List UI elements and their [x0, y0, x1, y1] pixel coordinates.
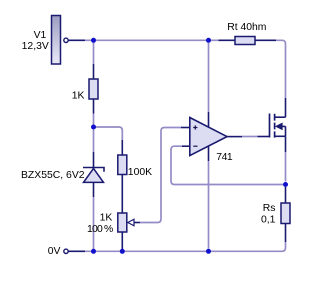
junction bottom op-amp V- [206, 249, 211, 254]
wire 1K to node A [93, 114, 95, 126]
junction node B source/Rs/feedback [283, 182, 288, 187]
wire op-amp V+ drop [208, 43, 210, 112]
junction top-left [91, 38, 96, 43]
svg-text:Rs: Rs [263, 203, 276, 214]
MOSFET Q1 [258, 98, 286, 152]
svg-text:1K: 1K [100, 212, 113, 223]
resistor Rs 0,1 [281, 187, 290, 242]
label 1K 100% [87, 212, 113, 235]
terminal 0V [64, 249, 85, 253]
label V1 12,3V [22, 30, 49, 52]
junction node A [91, 125, 96, 130]
wire top-right corner to drain [276, 40, 286, 98]
svg-text:741: 741 [216, 152, 233, 163]
wire node A to zener [93, 130, 95, 153]
junction bottom pot [120, 249, 125, 254]
battery V1 [52, 16, 86, 65]
wire op-amp output to gate [242, 136, 258, 138]
resistor Rt 40hm [219, 37, 277, 45]
wire bottom rail [85, 242, 286, 251]
svg-text:BZX55C, 6V2: BZX55C, 6V2 [21, 170, 85, 181]
svg-text:100 %: 100 % [87, 224, 113, 235]
wire top rail [85, 39, 219, 41]
wire battery to 1K [93, 43, 95, 65]
junction bottom zener [91, 249, 96, 254]
wire MOSFET source to node B [285, 152, 287, 182]
resistor R2 100K [118, 140, 127, 213]
potentiometer P1 1K 100% [118, 213, 140, 249]
svg-text:12,3V: 12,3V [22, 41, 49, 52]
zener diode D1 BZX55C 6V2 [83, 152, 104, 197]
svg-text:0V: 0V [48, 246, 61, 257]
wire node A to 100K branch [96, 127, 123, 140]
junction top op-amp V+ [206, 38, 211, 43]
op-amp U1 741 [181, 112, 242, 161]
wire feedback minus input to source node [171, 146, 283, 184]
wire op-amp V- drop [208, 161, 210, 249]
resistor R1 1K [89, 64, 98, 114]
wire wiper to op-amp plus input [140, 128, 181, 223]
wire zener to bottom rail [93, 197, 95, 249]
svg-text:0,1: 0,1 [261, 214, 276, 225]
svg-text:100K: 100K [128, 167, 152, 178]
svg-text:Rt 40hm: Rt 40hm [227, 22, 266, 33]
svg-text:1K: 1K [72, 91, 85, 102]
label Rs 0,1 [261, 203, 276, 225]
svg-text:V1: V1 [34, 30, 47, 41]
